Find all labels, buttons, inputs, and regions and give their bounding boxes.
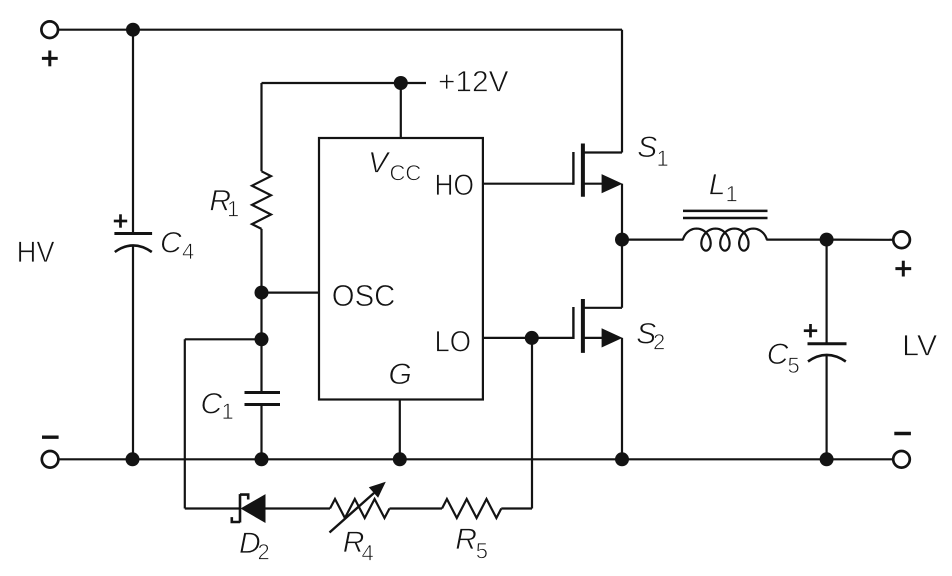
diode D2 zener bar bbox=[239, 494, 242, 522]
diode D2 triangle bbox=[241, 494, 266, 523]
svg-text:HO: HO bbox=[435, 169, 475, 202]
wire C5 top lead bbox=[825, 240, 827, 344]
wire node R1-C1 bbox=[260, 293, 262, 393]
minus sign HV terminal bbox=[42, 436, 59, 439]
svg-text:V: V bbox=[368, 146, 391, 179]
plus sign LV terminal bbox=[895, 267, 911, 270]
node gnd G bbox=[393, 452, 407, 466]
node +12V bbox=[394, 76, 408, 90]
transistor S2 source tab bbox=[585, 337, 603, 339]
svg-text:2: 2 bbox=[653, 330, 665, 355]
wire C1 bottom lead bbox=[260, 405, 262, 460]
wire Vcc pin bbox=[400, 83, 402, 138]
resistor R4 arrow head bbox=[369, 482, 386, 498]
svg-text:1: 1 bbox=[222, 399, 234, 424]
transistor S2 channel bbox=[581, 299, 585, 353]
transistor S1 arrow bbox=[602, 174, 623, 193]
transistor S2 drain tab bbox=[585, 307, 623, 309]
node gnd C1 bbox=[255, 452, 269, 466]
node output bbox=[820, 233, 834, 247]
node gnd C5 bbox=[820, 452, 834, 466]
op-amp U1 oscillator box bbox=[319, 138, 483, 400]
wire G pin bbox=[399, 400, 401, 460]
inductor L1 coil bbox=[683, 229, 767, 251]
svg-text:S: S bbox=[637, 131, 657, 164]
wire feedback to D2 bbox=[185, 507, 241, 509]
transistor S1 drain tab bbox=[585, 151, 623, 153]
wire feedback right vertical bbox=[531, 338, 533, 509]
svg-text:1: 1 bbox=[726, 182, 738, 207]
svg-text:CC: CC bbox=[390, 161, 422, 186]
svg-text:HV: HV bbox=[17, 236, 55, 269]
wire S1 drain vertical bbox=[621, 30, 623, 153]
node gnd S2 bbox=[615, 452, 629, 466]
wire L1 to output node bbox=[766, 239, 826, 241]
svg-text:LO: LO bbox=[435, 326, 472, 359]
wire C4 bottom lead bbox=[132, 246, 134, 460]
wire feedback left horizontal bbox=[185, 338, 262, 340]
transistor S2 gate plate bbox=[572, 307, 574, 339]
wire +12V stub bbox=[401, 82, 426, 84]
node switch midpoint bbox=[615, 233, 629, 247]
terminal LV+ bbox=[893, 232, 910, 249]
terminal HV+ bbox=[41, 21, 58, 38]
wire feedback left vertical bbox=[184, 339, 186, 508]
svg-text:1: 1 bbox=[227, 197, 239, 222]
resistor R4 zigzag bbox=[330, 499, 390, 518]
terminal HV- bbox=[42, 451, 59, 468]
svg-text:OSC: OSC bbox=[332, 278, 396, 313]
transistor S1 gate plate bbox=[572, 152, 574, 185]
svg-text:LV: LV bbox=[902, 329, 937, 362]
wire top rail bbox=[58, 29, 622, 31]
svg-text:4: 4 bbox=[362, 541, 374, 566]
svg-text:+12V: +12V bbox=[438, 65, 509, 98]
capacitor C5 bbox=[808, 342, 847, 345]
terminal LV- bbox=[893, 451, 910, 468]
diode D2 zener bottom hook bbox=[232, 517, 240, 522]
wire OSC pin bbox=[262, 292, 320, 294]
svg-text:5: 5 bbox=[788, 353, 800, 378]
wire R4 to R5 bbox=[390, 507, 443, 509]
wire S2 drain vertical bbox=[621, 240, 623, 308]
wire S2 source vertical bbox=[621, 338, 623, 459]
node gnd C4 bbox=[126, 452, 140, 466]
node C1 top bbox=[255, 332, 269, 346]
wire HO pin bbox=[483, 183, 574, 185]
node LO bbox=[525, 331, 539, 345]
transistor S1 source tab bbox=[585, 183, 603, 185]
wire output node to terminal bbox=[827, 239, 894, 241]
wire LO pin bbox=[483, 337, 574, 339]
wire node to L1 bbox=[622, 239, 684, 241]
diode D2 zener top hook bbox=[240, 495, 248, 500]
wire R5 to feedback right bbox=[501, 507, 532, 509]
wire C5 bottom lead bbox=[825, 355, 827, 459]
svg-text:1: 1 bbox=[657, 146, 669, 171]
inductor L1 core lines bbox=[683, 210, 768, 213]
wire C4 top lead bbox=[132, 30, 134, 234]
wire R1 bottom lead bbox=[260, 229, 262, 293]
resistor R1 bbox=[252, 171, 271, 229]
resistor R4 arrow shaft bbox=[330, 493, 375, 533]
svg-text:L: L bbox=[709, 168, 726, 201]
svg-text:C: C bbox=[160, 227, 182, 260]
svg-text:C: C bbox=[201, 388, 223, 421]
minus sign LV terminal bbox=[894, 432, 911, 435]
node OSC bbox=[255, 286, 269, 300]
transistor S2 arrow bbox=[602, 328, 623, 347]
capacitor C4 bbox=[114, 232, 152, 235]
plus sign C5 bbox=[804, 329, 817, 332]
svg-text:2: 2 bbox=[258, 539, 270, 564]
transistor S1 channel bbox=[581, 144, 585, 197]
plus sign C4 bbox=[114, 220, 127, 223]
node top-left bbox=[126, 23, 140, 37]
resistor R5 zigzag bbox=[442, 499, 501, 518]
svg-text:R: R bbox=[455, 523, 477, 556]
wire ground rail bbox=[58, 458, 893, 460]
wire R1 top lead bbox=[260, 83, 262, 171]
svg-text:4: 4 bbox=[182, 239, 194, 264]
wire S1 source vertical bbox=[621, 184, 623, 240]
svg-text:5: 5 bbox=[476, 538, 488, 563]
wire +12V rail bbox=[262, 82, 401, 84]
plus sign HV terminal bbox=[42, 57, 58, 60]
capacitor C1 bbox=[245, 391, 281, 394]
svg-text:C: C bbox=[767, 338, 789, 371]
svg-text:G: G bbox=[389, 358, 412, 391]
wire D2 to R4 bbox=[266, 507, 331, 509]
